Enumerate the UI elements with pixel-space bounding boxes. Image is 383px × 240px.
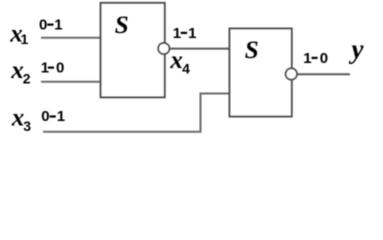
svg-text:1: 1 <box>41 59 49 76</box>
gate U1 body <box>101 3 165 98</box>
svg-text:S: S <box>245 37 259 64</box>
svg-text:4: 4 <box>182 61 190 77</box>
svg-text:1: 1 <box>303 50 311 67</box>
wire x1 input <box>41 37 101 39</box>
wire x3 input run: horizontal, riser at x=200.5, into gate 2 <box>43 94 230 132</box>
gate U2 body <box>229 28 291 116</box>
svg-text:y: y <box>349 34 365 64</box>
gate U1 output inversion bubble <box>158 43 169 54</box>
wire x4 (gate1 output to gate2 input) <box>168 48 230 50</box>
svg-text:0: 0 <box>39 16 47 33</box>
wire y output <box>296 73 350 75</box>
gate U2 output inversion bubble <box>286 68 298 80</box>
svg-text:S: S <box>115 12 129 39</box>
svg-text:x: x <box>10 57 24 84</box>
svg-text:1: 1 <box>21 31 29 47</box>
svg-text:x: x <box>169 47 183 74</box>
svg-text:1: 1 <box>54 16 62 33</box>
svg-text:2: 2 <box>23 71 31 87</box>
svg-text:0: 0 <box>320 50 328 67</box>
svg-text:1: 1 <box>57 108 65 125</box>
svg-text:3: 3 <box>23 118 31 134</box>
svg-text:x: x <box>11 104 25 131</box>
svg-text:0: 0 <box>56 59 64 76</box>
svg-text:1: 1 <box>173 25 181 42</box>
wire x2 input <box>41 81 101 83</box>
svg-text:1: 1 <box>188 25 196 42</box>
svg-text:0: 0 <box>41 108 49 125</box>
